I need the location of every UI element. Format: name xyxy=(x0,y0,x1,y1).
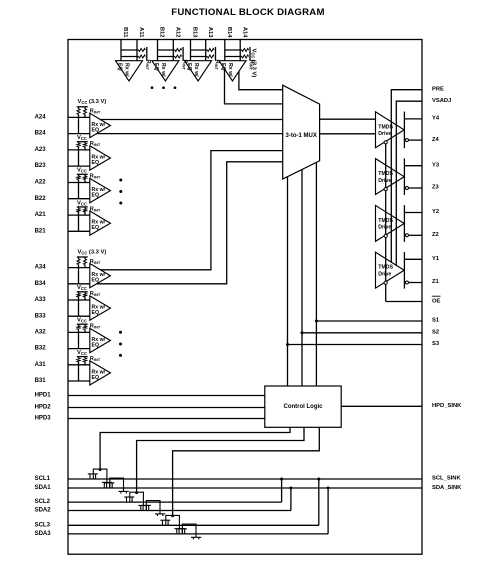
gate plate xyxy=(130,492,144,505)
wire SDA3 xyxy=(68,533,328,535)
wire pin B32 to amp xyxy=(68,348,90,350)
wire MUX output N to TMDS driver 1 xyxy=(320,133,376,135)
wire Y3 output xyxy=(404,165,422,167)
resistor RINT (pullup to B line) xyxy=(77,293,80,297)
svg-text:Rx w/: Rx w/ xyxy=(227,63,233,77)
wire SDA1 xyxy=(68,487,422,489)
block Control Logic xyxy=(265,386,341,427)
wire select rail to MUX xyxy=(301,169,303,386)
wire HPD1 to control logic xyxy=(68,395,265,397)
svg-text:EQ: EQ xyxy=(92,193,100,199)
svg-text:SCL2: SCL2 xyxy=(35,499,51,505)
wire top amp4 output N to MUX xyxy=(225,68,283,104)
svg-text:SDA2: SDA2 xyxy=(35,508,52,514)
svg-text:Drive: Drive xyxy=(378,225,391,231)
wire VSADJ rail xyxy=(396,101,422,265)
wire amp A24/B24 output N to MUX xyxy=(97,133,283,135)
svg-text:HPD1: HPD1 xyxy=(35,393,52,399)
ellipsis dots between amp channels group 2 xyxy=(119,331,122,334)
wire pin B11 xyxy=(120,40,122,61)
svg-text:S3: S3 xyxy=(432,341,440,347)
op-amp Rx w/ EQ (A24/B24) xyxy=(90,113,111,137)
wire pin A31 to amp xyxy=(68,364,90,366)
resistor RINT (pullup to A line) xyxy=(84,358,87,362)
wire SCL3 riser to SCL_SINK bus xyxy=(318,479,320,525)
enable bubble xyxy=(384,234,387,237)
svg-text:A33: A33 xyxy=(35,297,47,303)
node junction xyxy=(327,487,330,490)
op-amp Rx w/ EQ (A21/B21) xyxy=(90,211,111,235)
svg-text:VCC (3.3 V): VCC (3.3 V) xyxy=(78,99,107,105)
source contact xyxy=(88,473,98,475)
svg-text:SDA3: SDA3 xyxy=(35,531,52,537)
svg-text:A22: A22 xyxy=(35,180,47,186)
resistor RINT (pullup to B line) xyxy=(77,259,80,265)
node VCC bar xyxy=(182,47,184,61)
drain contact xyxy=(119,490,129,492)
svg-text:FUNCTIONAL BLOCK DIAGRAM: FUNCTIONAL BLOCK DIAGRAM xyxy=(171,7,324,18)
svg-text:EQ: EQ xyxy=(186,63,192,71)
svg-text:B31: B31 xyxy=(35,378,47,384)
drain contact xyxy=(174,528,184,530)
svg-text:B12: B12 xyxy=(159,27,165,38)
buffer TMDS Drive 4 xyxy=(376,112,405,148)
enable bubble xyxy=(384,141,387,144)
svg-text:A23: A23 xyxy=(35,147,47,153)
wire pin A21 to amp xyxy=(68,214,90,216)
op-amp Rx w/ EQ (A23/B23) xyxy=(90,146,111,170)
gate junction xyxy=(171,515,174,518)
resistor RINT (pullup to B line) xyxy=(77,109,80,115)
wire PRE rail xyxy=(391,90,422,263)
node VCC bar xyxy=(77,141,88,143)
svg-text:RINT: RINT xyxy=(145,60,151,71)
wire select rail to MUX xyxy=(315,162,317,386)
buffer TMDS Drive 3 xyxy=(376,159,405,195)
svg-text:Control Logic: Control Logic xyxy=(284,404,324,410)
svg-text:Y2: Y2 xyxy=(432,209,439,215)
outer boundary box xyxy=(68,40,422,555)
svg-text:Drive: Drive xyxy=(378,178,391,184)
enable bubble xyxy=(384,188,387,191)
wire gate control 1 from Control Logic xyxy=(100,427,290,469)
wire select rail to MUX xyxy=(287,177,289,386)
resistor RINT pullup pair for B14/A14 xyxy=(225,49,242,51)
node VCC bar xyxy=(77,291,88,293)
drain contact xyxy=(138,505,148,507)
gate junction xyxy=(99,468,102,471)
wire S3 xyxy=(288,344,423,346)
source contact xyxy=(124,496,134,498)
svg-text:B22: B22 xyxy=(35,196,47,202)
output bar xyxy=(403,112,405,149)
svg-text:B24: B24 xyxy=(35,131,47,137)
node VCC bar xyxy=(77,356,88,358)
inverter bubble Z2 xyxy=(405,234,408,237)
op-amp Rx w/ EQ (A32/B32) xyxy=(90,328,111,352)
wire Z1 output xyxy=(408,282,422,284)
svg-text:PRE: PRE xyxy=(432,86,444,92)
wire SCL3 xyxy=(68,524,319,526)
source contact xyxy=(141,504,151,506)
wire pin B34 to amp xyxy=(68,283,90,285)
source contact xyxy=(177,528,187,530)
drain contact xyxy=(155,513,165,515)
svg-text:Rx w/: Rx w/ xyxy=(160,63,166,77)
svg-text:A21: A21 xyxy=(35,212,47,218)
wire pin A13 xyxy=(205,40,207,61)
wire Y4 output xyxy=(404,118,422,120)
svg-text:B23: B23 xyxy=(35,163,47,169)
svg-text:Z4: Z4 xyxy=(432,137,440,143)
wire pin B21 to amp xyxy=(68,230,90,232)
op-amp Rx w/ EQ (A22/B22) xyxy=(90,178,111,202)
wire pin B12 xyxy=(157,40,159,61)
wire gate control 2 from Control Logic xyxy=(137,427,304,492)
svg-text:A24: A24 xyxy=(35,115,47,121)
svg-text:SDA1: SDA1 xyxy=(35,485,52,491)
node junction xyxy=(289,487,292,490)
svg-text:VCC (3.3 V): VCC (3.3 V) xyxy=(78,249,107,255)
node VCC bar xyxy=(215,47,217,61)
drain contact xyxy=(191,536,201,538)
svg-text:SCL_SINK: SCL_SINK xyxy=(432,476,461,482)
output bar xyxy=(403,205,405,242)
svg-text:A32: A32 xyxy=(35,330,47,336)
node S2 junction xyxy=(301,331,304,334)
svg-text:EQ: EQ xyxy=(117,63,123,71)
ellipsis dots between amp channels group 1 xyxy=(119,179,122,182)
wire top amp4 output P to MUX xyxy=(239,72,283,90)
svg-text:S2: S2 xyxy=(432,330,439,336)
svg-text:HPD3: HPD3 xyxy=(35,416,52,422)
svg-text:Rx w/: Rx w/ xyxy=(193,63,199,77)
node VCC bar xyxy=(77,106,88,108)
svg-text:OE: OE xyxy=(432,299,441,305)
svg-text:VCC: VCC xyxy=(77,350,87,356)
resistor RINT (pullup to B line) xyxy=(77,143,80,147)
wire Z4 output xyxy=(408,139,422,141)
wire SCL1 xyxy=(68,478,422,480)
svg-text:VSADJ: VSADJ xyxy=(432,98,451,104)
wire pin A32 to amp xyxy=(68,331,90,333)
op-amp Rx w/ EQ (A34/B34) xyxy=(90,264,111,288)
op-amp Rx w/ EQ (port 1 lane 4) xyxy=(219,61,246,81)
svg-text:A14: A14 xyxy=(241,27,247,38)
wire gate control 3 from Control Logic xyxy=(173,427,320,516)
node VCC bar xyxy=(77,256,88,258)
resistor RINT (pullup to A line) xyxy=(84,109,87,115)
resistor RINT (pullup to B line) xyxy=(77,358,80,362)
wire SCL2 riser to SCL_SINK bus xyxy=(281,479,283,502)
svg-text:3-to-1 MUX: 3-to-1 MUX xyxy=(286,133,317,139)
wire pin A12 xyxy=(172,40,174,61)
svg-text:B11: B11 xyxy=(122,27,128,38)
svg-text:EQ: EQ xyxy=(92,310,100,316)
buffer TMDS Drive 2 xyxy=(376,205,405,241)
svg-text:VCC: VCC xyxy=(77,168,87,174)
wire HPD3 to control logic xyxy=(68,418,265,420)
resistor RINT (pullup to A line) xyxy=(84,326,87,330)
svg-text:VCC: VCC xyxy=(77,285,87,291)
wire Y2 output xyxy=(404,212,422,214)
gate plate xyxy=(182,524,196,537)
svg-text:EQ: EQ xyxy=(92,128,100,134)
wire Z3 output xyxy=(408,187,422,189)
resistor RINT (pullup to A line) xyxy=(84,143,87,147)
node VCC bar xyxy=(77,206,88,208)
svg-text:Y3: Y3 xyxy=(432,162,440,168)
wire pin B14 xyxy=(224,40,226,61)
gate plate xyxy=(166,515,180,528)
inverter bubble Z1 xyxy=(405,281,408,284)
svg-text:VCC: VCC xyxy=(77,318,87,324)
svg-text:Z2: Z2 xyxy=(432,232,439,238)
buffer TMDS Drive 1 xyxy=(376,252,405,288)
gate plate xyxy=(146,501,160,514)
svg-text:Rx w/: Rx w/ xyxy=(124,63,130,77)
wire pin B33 to amp xyxy=(68,315,90,317)
svg-text:EQ: EQ xyxy=(92,343,100,349)
source contact xyxy=(104,482,114,484)
resistor RINT pullup pair for B11/A11 xyxy=(121,49,139,51)
resistor RINT (pullup to A line) xyxy=(84,293,87,297)
svg-text:EQ: EQ xyxy=(92,160,100,166)
drain contact xyxy=(102,481,112,483)
wire pin B31 to amp xyxy=(68,380,90,382)
svg-text:A13: A13 xyxy=(207,27,213,38)
svg-text:Z3: Z3 xyxy=(432,185,440,191)
node VCC bar xyxy=(146,47,148,61)
wire SCL2 xyxy=(68,501,282,503)
svg-text:EQ: EQ xyxy=(220,63,226,71)
svg-text:Y4: Y4 xyxy=(432,116,440,122)
resistor RINT (pullup to B line) xyxy=(77,209,80,213)
wire pin A11 xyxy=(136,40,138,61)
op-amp Rx w/ EQ (A33/B33) xyxy=(90,296,111,320)
svg-text:Drive: Drive xyxy=(378,131,391,137)
svg-text:HPD2: HPD2 xyxy=(35,405,52,411)
svg-text:EQ: EQ xyxy=(92,225,100,231)
svg-text:A34: A34 xyxy=(35,265,47,271)
svg-text:EQ: EQ xyxy=(92,278,100,284)
wire HPD_SINK from control logic xyxy=(341,405,422,407)
svg-text:VCC: VCC xyxy=(77,135,87,141)
wire SDA2 xyxy=(68,510,291,512)
svg-text:B32: B32 xyxy=(35,346,47,352)
source contact xyxy=(160,519,170,521)
wire Z2 output xyxy=(408,234,422,236)
gate junction xyxy=(135,491,138,494)
op-amp Rx w/ EQ (A31/B31) xyxy=(90,361,111,385)
gate plate xyxy=(110,478,124,491)
output bar xyxy=(403,158,405,195)
enable bubble xyxy=(384,281,387,284)
wire SDA2 riser to SDA_SINK bus xyxy=(290,488,292,511)
svg-text:EQ: EQ xyxy=(92,375,100,381)
resistor RINT (pullup to A line) xyxy=(84,259,87,265)
inverter bubble Z4 xyxy=(405,139,408,142)
svg-text:SCL3: SCL3 xyxy=(35,522,51,528)
wire pin A34 to amp xyxy=(68,267,90,269)
resistor RINT (pullup to A line) xyxy=(84,176,87,180)
svg-text:VCC (3.3 V): VCC (3.3 V) xyxy=(251,49,257,78)
node VCC bar xyxy=(249,47,251,61)
svg-text:S1: S1 xyxy=(432,318,440,324)
svg-text:SCL1: SCL1 xyxy=(35,476,51,482)
mux 3-to-1 MUX xyxy=(283,85,320,179)
node VCC bar xyxy=(77,323,88,325)
resistor RINT (pullup to A line) xyxy=(84,209,87,213)
node S1 junction xyxy=(315,320,318,323)
op-amp Rx w/ EQ (port 1 lane 1) xyxy=(116,61,143,81)
wire pin A23 to amp xyxy=(68,149,90,151)
wire pin B24 to amp xyxy=(68,133,90,135)
wire pin B13 xyxy=(190,40,192,61)
wire amp A34/B34 output N riser to MUX xyxy=(97,162,283,284)
svg-text:EQ: EQ xyxy=(153,63,159,71)
resistor RINT (pullup to B line) xyxy=(77,326,80,330)
wire pin B22 to amp xyxy=(68,198,90,200)
svg-text:A12: A12 xyxy=(175,27,181,38)
wire pin A24 to amp xyxy=(68,116,90,118)
wire pin B23 to amp xyxy=(68,165,90,167)
wire HPD2 to control logic xyxy=(68,407,265,409)
op-amp Rx w/ EQ (port 1 lane 3) xyxy=(185,61,212,81)
node junction xyxy=(280,478,283,481)
wire S1 xyxy=(316,320,422,322)
svg-text:SDA_SINK: SDA_SINK xyxy=(432,485,462,491)
output bar xyxy=(403,252,405,289)
inverter bubble Z3 xyxy=(405,187,408,190)
wire MUX output P to TMDS driver 1 xyxy=(320,118,376,120)
svg-text:Z1: Z1 xyxy=(432,279,440,285)
node VCC bar xyxy=(77,173,88,175)
svg-text:B21: B21 xyxy=(35,228,47,234)
wire pin A33 to amp xyxy=(68,299,90,301)
wire pin A22 to amp xyxy=(68,182,90,184)
resistor RINT (pullup to B line) xyxy=(77,176,80,180)
svg-text:Drive: Drive xyxy=(378,272,391,278)
resistor RINT pullup pair for B12/A12 xyxy=(158,49,175,51)
wire Y1 output xyxy=(404,258,422,260)
svg-text:A31: A31 xyxy=(35,362,47,368)
svg-text:VCC: VCC xyxy=(77,200,87,206)
gate plate xyxy=(93,469,107,482)
svg-text:B33: B33 xyxy=(35,313,47,319)
svg-text:Y1: Y1 xyxy=(432,256,440,262)
ellipsis dots between top amps xyxy=(151,86,154,89)
wire OE to rail xyxy=(386,301,422,303)
wire amp A24/B24 output P to MUX xyxy=(100,119,282,121)
wire pin A14 xyxy=(239,40,241,61)
wire SDA3 riser to SDA_SINK bus xyxy=(327,488,329,534)
node junction xyxy=(317,478,320,481)
wire amp A34/B34 output P riser to MUX xyxy=(100,151,282,270)
svg-text:A11: A11 xyxy=(138,27,144,38)
svg-text:HPD_SINK: HPD_SINK xyxy=(432,403,462,409)
op-amp Rx w/ EQ (port 1 lane 2) xyxy=(152,61,179,81)
svg-text:TMDS: TMDS xyxy=(378,265,393,271)
wire S2 xyxy=(302,332,422,334)
svg-text:B34: B34 xyxy=(35,281,47,287)
svg-text:B13: B13 xyxy=(192,27,198,38)
node S3 junction xyxy=(286,343,289,346)
svg-text:B14: B14 xyxy=(226,27,232,38)
resistor RINT pullup pair for B13/A13 xyxy=(191,49,208,51)
wire OE enable rail xyxy=(385,142,387,301)
